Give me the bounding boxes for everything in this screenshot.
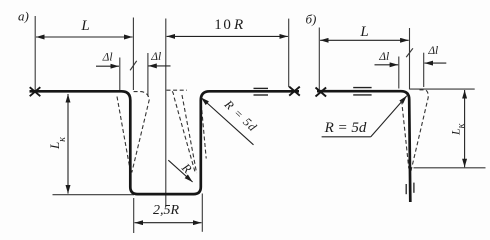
svg-text:Δl: Δl: [102, 52, 113, 64]
svg-text:к: к: [57, 137, 68, 142]
svg-text:R = 5d: R = 5d: [324, 120, 367, 136]
svg-text:2,5R: 2,5R: [153, 203, 180, 218]
svg-text:Δl: Δl: [150, 51, 161, 63]
svg-text:а): а): [18, 9, 29, 24]
svg-text:10R: 10R: [214, 17, 244, 33]
svg-text:Δl: Δl: [427, 45, 438, 57]
svg-text:R = 5d: R = 5d: [221, 97, 260, 135]
svg-text:б): б): [306, 12, 317, 27]
svg-text:L: L: [80, 18, 89, 34]
svg-text:L: L: [47, 142, 62, 150]
svg-text:к: к: [456, 123, 467, 128]
svg-text:Δl: Δl: [378, 51, 389, 63]
svg-text:L: L: [359, 24, 368, 40]
